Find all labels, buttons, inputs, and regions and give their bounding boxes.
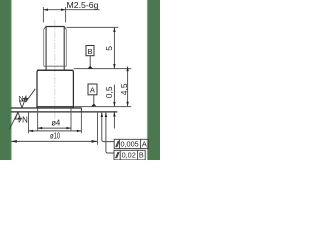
svg-text:0,5: 0,5 — [104, 86, 114, 98]
svg-text:M2.5-6g: M2.5-6g — [67, 0, 99, 10]
svg-text:ø10: ø10 — [50, 132, 61, 141]
svg-text:B: B — [139, 151, 144, 160]
svg-text:A: A — [142, 139, 147, 148]
svg-text:N4: N4 — [17, 114, 28, 123]
svg-text:5: 5 — [104, 46, 114, 51]
svg-text:0,02: 0,02 — [122, 151, 136, 160]
svg-text:ø4: ø4 — [51, 119, 60, 128]
svg-text:4,5: 4,5 — [119, 83, 129, 95]
svg-text:0,005: 0,005 — [120, 139, 138, 148]
svg-text:B: B — [87, 47, 92, 56]
